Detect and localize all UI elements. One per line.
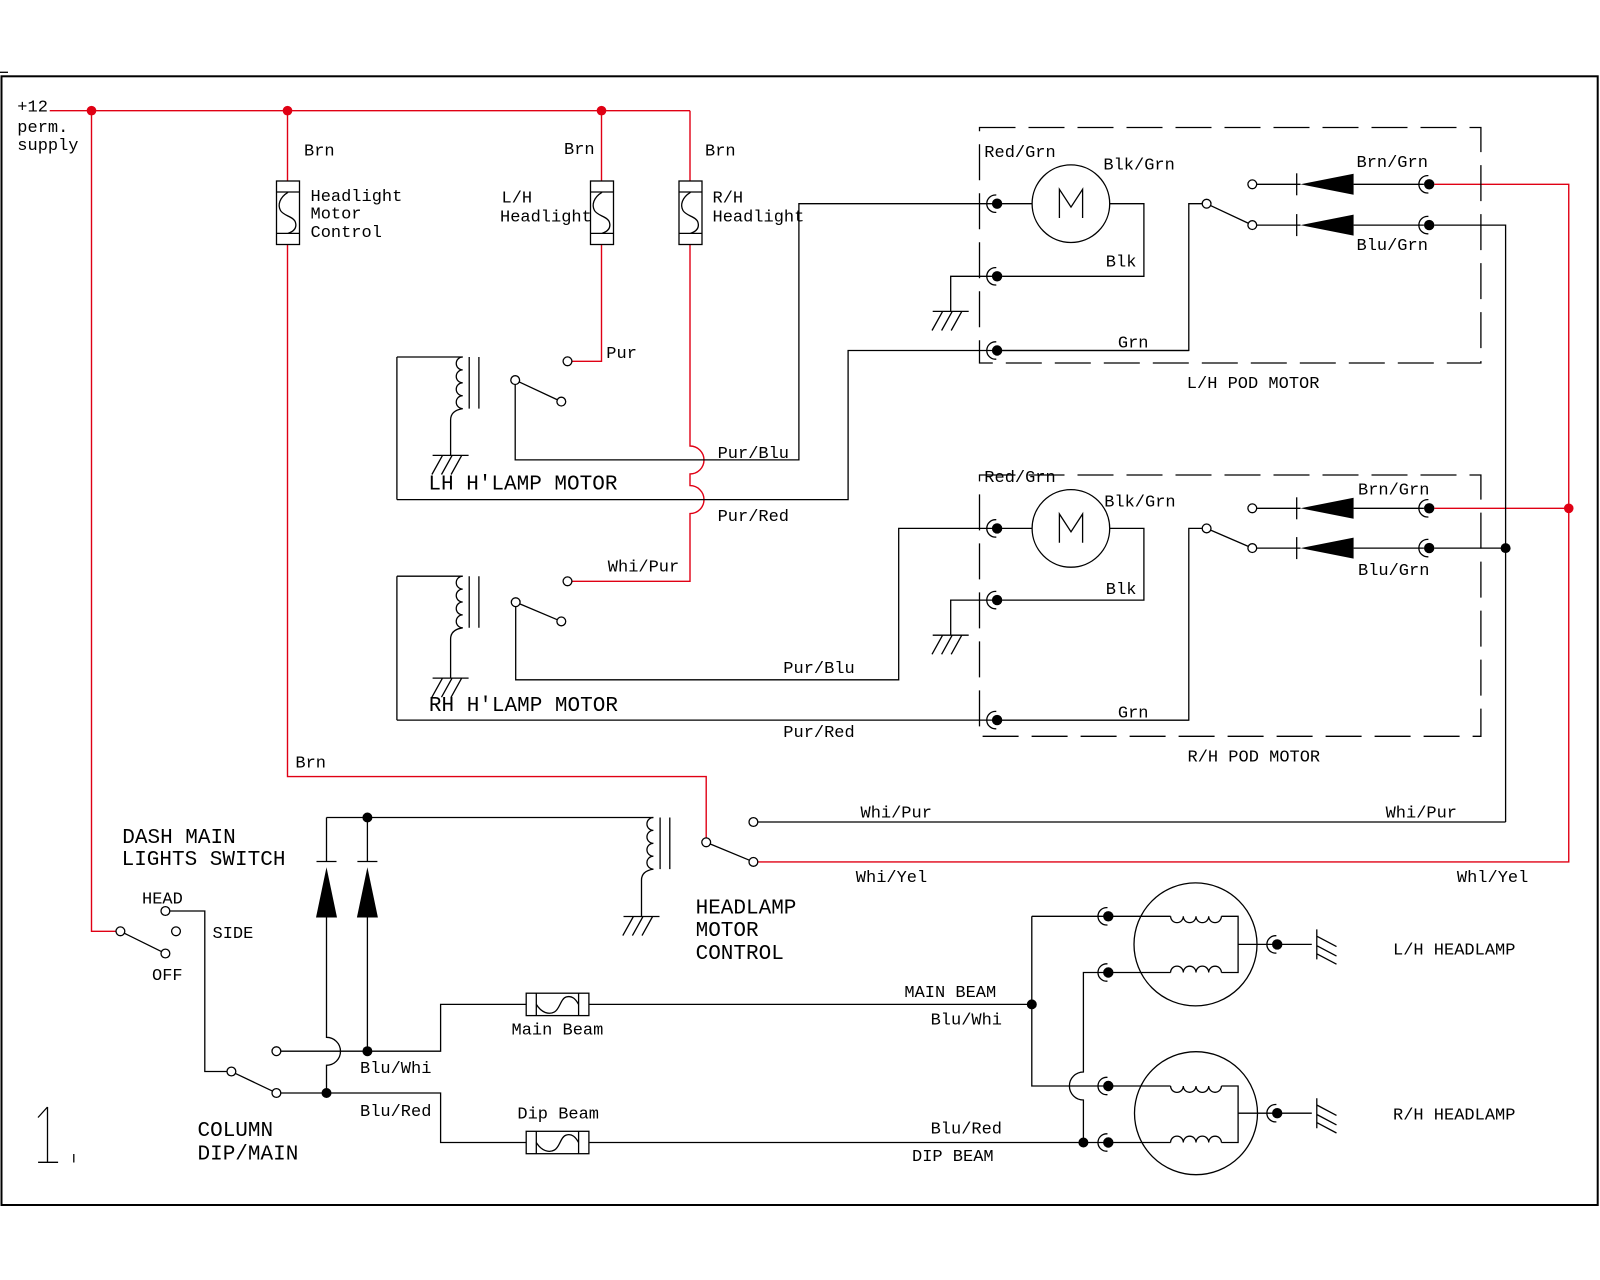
svg-text:Whi/Yel: Whi/Yel <box>856 869 927 888</box>
wire Pur/Blu LH relay to L/H pod Red/Grn terminal <box>515 204 1032 460</box>
wire RH relay coil left drop <box>396 576 398 720</box>
switch pod lower contact R/H pod <box>1248 544 1257 553</box>
switch dash contact SIDE <box>172 927 181 936</box>
wire main beam junction to L/H headlamp <box>1032 915 1171 917</box>
svg-text:DIP/MAIN: DIP/MAIN <box>198 1144 299 1167</box>
svg-text:Pur/Blu: Pur/Blu <box>783 660 854 679</box>
svg-text:Brn/Grn: Brn/Grn <box>1357 154 1428 173</box>
junction red +12 at F1 <box>283 106 293 116</box>
svg-text:Brn: Brn <box>304 143 335 162</box>
svg-text:Blk: Blk <box>1106 254 1137 273</box>
wire HEAD contact to column dip/main pivot <box>170 911 227 1072</box>
junction Blu/Whi at diode D2 <box>362 1046 372 1056</box>
wire Brn/Grn red bus from L/H pod down Whi/Yel <box>758 184 1569 862</box>
switch HMC lower contact Whi/Yel <box>749 858 758 867</box>
motor M circle L/H pod <box>1032 165 1110 243</box>
terminal Blk R/H pod <box>987 591 997 608</box>
svg-text:R/H POD MOTOR: R/H POD MOTOR <box>1188 749 1321 768</box>
diode Brn/Grn R/H pod <box>1301 498 1354 519</box>
svg-text:Blk/Grn: Blk/Grn <box>1103 157 1174 176</box>
switch RH relay pivot <box>511 598 520 607</box>
wire HMC coil bottom to ground <box>642 869 654 916</box>
svg-text:OFF: OFF <box>152 967 183 986</box>
terminal Red/Grn L/H pod <box>987 195 997 212</box>
fuse Main Beam <box>526 993 589 1015</box>
wire diode to Brn/Grn terminal R/H pod <box>1354 507 1424 509</box>
wire diode to Blu/Grn terminal L/H pod <box>1354 224 1424 226</box>
switch pod pivot L/H pod <box>1202 199 1211 208</box>
relay LH coil core <box>469 357 479 409</box>
wire lower contact to diode L/H pod <box>1257 224 1301 226</box>
switch column contact main <box>272 1047 281 1056</box>
wire diode to Brn/Grn terminal L/H pod <box>1354 183 1424 185</box>
wire Whi/Pur from F3 to RH relay upper contact with hops <box>572 245 704 582</box>
svg-text:CONTROL: CONTROL <box>696 943 784 966</box>
svg-text:Pur/Red: Pur/Red <box>718 508 789 527</box>
svg-text:Pur/Blu: Pur/Blu <box>718 445 789 464</box>
switch LH relay lever <box>519 382 557 400</box>
wire Blu/Grn link L/H pod to R/H pod to Whi/Pur <box>1434 225 1505 822</box>
wire main beam junction down to R/H headlamp <box>1032 916 1171 1086</box>
diode D2 cathode bar <box>357 861 377 863</box>
junction red +12 at switch drop <box>87 106 97 116</box>
wire filament join right L/H headlamp <box>1221 916 1238 972</box>
svg-text:Blu/Red: Blu/Red <box>931 1121 1002 1140</box>
headlamp circle R/H headlamp <box>1135 1052 1258 1175</box>
svg-text:Brn: Brn <box>705 143 736 162</box>
wire Main Beam fuse to junction <box>589 1003 1032 1005</box>
wire Pur/Red LH relay to L/H pod Grn terminal <box>397 351 1189 500</box>
wire +12 perm supply bus Brn <box>50 110 690 112</box>
wire diode D1 top <box>326 818 328 862</box>
svg-text:+12: +12 <box>17 99 48 118</box>
ground HMC relay <box>623 917 660 936</box>
switch pod pivot R/H pod <box>1202 524 1211 533</box>
wire RH relay coil bottom to ground <box>451 628 463 678</box>
fuse Headlight Motor Control <box>277 181 300 245</box>
wire lamp common tap L/H headlamp <box>1238 943 1312 945</box>
junction red +12 at F2 <box>597 106 607 116</box>
svg-text:Brn: Brn <box>295 755 326 774</box>
wire RH relay coil top <box>397 575 463 577</box>
switch LH relay lower contact <box>557 397 566 406</box>
svg-text:Main Beam: Main Beam <box>512 1022 604 1041</box>
switch dash contact OFF <box>161 949 170 958</box>
wire filament join right R/H headlamp <box>1221 1086 1238 1143</box>
fuse Dip Beam <box>526 1131 589 1153</box>
wire dip beam riser to L/H headlamp with hop <box>1069 973 1170 1143</box>
svg-text:Whi/Pur: Whi/Pur <box>608 559 679 578</box>
switch RH relay lever <box>520 604 557 620</box>
terminal Red/Grn R/H pod <box>987 520 997 537</box>
sheet number 1 <box>38 1107 58 1162</box>
wire upper contact to diode L/H pod <box>1257 183 1301 185</box>
pod box R/H pod <box>980 475 1481 736</box>
wire LH relay coil top <box>397 356 463 358</box>
junction dip beam <box>1078 1138 1088 1148</box>
switch LH relay upper contact Pur <box>563 357 572 366</box>
switch LH relay pivot <box>511 376 520 385</box>
pod box L/H pod <box>980 128 1481 364</box>
svg-text:L/H: L/H <box>502 190 533 209</box>
relay LH H'LAMP MOTOR coil <box>456 357 462 409</box>
svg-text:RH H'LAMP MOTOR: RH H'LAMP MOTOR <box>429 695 618 718</box>
switch HMC upper contact Whi/Pur <box>749 818 758 827</box>
switch column lever to dip <box>235 1073 272 1091</box>
wire Blu/Grn stub R/H pod <box>1434 547 1505 549</box>
svg-text:Red/Grn: Red/Grn <box>984 144 1055 163</box>
svg-text:Pur/Red: Pur/Red <box>783 724 854 743</box>
svg-text:Whl/Yel: Whl/Yel <box>1457 869 1528 888</box>
svg-text:Red/Grn: Red/Grn <box>984 469 1055 488</box>
svg-text:Control: Control <box>311 224 382 243</box>
filament dip beam L/H headlamp <box>1171 966 1222 972</box>
wire red drop to dash main lights switch <box>92 111 116 932</box>
terminal Grn R/H pod <box>987 711 997 728</box>
svg-text:LIGHTS SWITCH: LIGHTS SWITCH <box>122 849 286 872</box>
diode D1 cathode bar <box>317 861 337 863</box>
wire diode D2 bottom <box>366 918 368 1052</box>
wire motor loop Blk/Grn R/H pod <box>1002 528 1144 600</box>
wire Pur from F2 to LH relay upper contact <box>572 245 602 362</box>
motor M circle R/H pod <box>1032 490 1110 568</box>
svg-text:R/H HEADLAMP: R/H HEADLAMP <box>1393 1107 1515 1126</box>
junction diode link <box>362 813 372 823</box>
terminal lamp common L/H headlamp <box>1267 936 1277 953</box>
diode Brn/Grn cathode bar R/H pod <box>1296 497 1298 519</box>
wire Blk terminal to ground R/H pod <box>951 600 997 635</box>
svg-text:COLUMN: COLUMN <box>198 1120 274 1143</box>
switch dash contact HEAD <box>161 907 170 916</box>
relay headlamp motor control coil <box>647 818 653 870</box>
wire Brn feed to fuse F1 <box>287 111 289 181</box>
terminal Brn/Grn L/H pod <box>1419 176 1429 193</box>
fuse L/H Headlight <box>591 181 614 245</box>
svg-text:Headlight: Headlight <box>713 209 805 228</box>
svg-text:LH H'LAMP MOTOR: LH H'LAMP MOTOR <box>428 474 617 497</box>
diode Blu/Grn cathode bar R/H pod <box>1296 537 1298 559</box>
svg-text:Headlight: Headlight <box>311 188 403 207</box>
ground headlamp L/H headlamp <box>1317 929 1337 964</box>
svg-text:Whi/Pur: Whi/Pur <box>1386 804 1457 823</box>
relay RH H'LAMP MOTOR coil <box>456 576 462 628</box>
terminal Brn/Grn R/H pod <box>1419 500 1429 517</box>
wire diode D2 top <box>366 818 368 862</box>
diode Blu/Grn L/H pod <box>1301 215 1354 236</box>
fuse R/H Headlight <box>679 181 702 245</box>
switch pod lower contact L/H pod <box>1248 221 1257 230</box>
switch dash main lights pivot <box>116 927 125 936</box>
wire Blk terminal to ground L/H pod <box>951 276 997 311</box>
terminal lamp left dip L/H headlamp <box>1098 964 1108 981</box>
switch HMC lever <box>710 844 749 860</box>
switch pod upper contact R/H pod <box>1248 504 1257 513</box>
terminal Blu/Grn L/H pod <box>1419 216 1429 233</box>
wire Dip Beam fuse to R/H headlamp dip filament <box>589 1142 1171 1144</box>
terminal lamp left main R/H headlamp <box>1098 1077 1108 1094</box>
terminal lamp left dip R/H headlamp <box>1098 1134 1108 1151</box>
diode Blu/Grn cathode bar L/H pod <box>1296 214 1298 236</box>
border frame stub top-left <box>0 71 8 73</box>
wire lamp common tap R/H headlamp <box>1238 1112 1312 1114</box>
sheet number tick <box>73 1154 75 1163</box>
svg-text:Blu/Whi: Blu/Whi <box>931 1012 1002 1031</box>
motor M letter R/H pod <box>1059 514 1082 543</box>
terminal lamp left main L/H headlamp <box>1098 908 1108 925</box>
svg-text:Blu/Red: Blu/Red <box>360 1103 431 1122</box>
wire Whi/Pur to pods Blu/Grn link <box>758 821 1506 823</box>
svg-text:MOTOR: MOTOR <box>696 920 759 943</box>
wire diode link to HMC relay coil <box>327 817 654 819</box>
svg-text:SIDE: SIDE <box>213 925 254 944</box>
switch RH relay lower contact <box>557 617 566 626</box>
wire Brn feed to fuse F2 <box>601 111 603 181</box>
wire diode D1 bottom with hop over Blu/Whi <box>327 918 341 1094</box>
switch pod lever L/H pod <box>1211 206 1249 224</box>
svg-text:Brn/Grn: Brn/Grn <box>1358 481 1429 500</box>
diode D2 <box>357 867 378 917</box>
svg-text:perm.: perm. <box>17 119 68 138</box>
wire motor loop Blk/Grn L/H pod <box>1002 204 1144 277</box>
svg-text:DIP BEAM: DIP BEAM <box>912 1148 994 1167</box>
junction red Brn/Grn at R/H pod <box>1564 504 1574 514</box>
svg-text:Blu/Grn: Blu/Grn <box>1357 237 1428 256</box>
junction Blu/Red at diode D1 <box>322 1088 332 1098</box>
wire upper contact to diode R/H pod <box>1257 507 1301 509</box>
junction Blu/Grn at R/H pod <box>1501 543 1511 553</box>
svg-text:HEADLAMP: HEADLAMP <box>696 897 797 920</box>
filament main beam L/H headlamp <box>1171 916 1222 922</box>
svg-text:Blk/Grn: Blk/Grn <box>1104 493 1175 512</box>
svg-text:Pur: Pur <box>606 345 637 364</box>
svg-text:Grn: Grn <box>1118 335 1149 354</box>
wire Brn feed to fuse F3 <box>689 111 691 181</box>
junction main beam <box>1027 999 1037 1009</box>
wire diode to Blu/Grn terminal R/H pod <box>1354 547 1424 549</box>
switch HMC pivot <box>702 838 711 847</box>
ground headlamp R/H headlamp <box>1317 1098 1337 1133</box>
headlamp circle L/H headlamp <box>1134 883 1257 1006</box>
svg-text:supply: supply <box>17 137 78 156</box>
ground pod motor L/H pod <box>932 311 969 330</box>
relay RH coil core <box>469 576 479 628</box>
wire LH relay coil left drop <box>396 357 398 500</box>
switch pod lever R/H pod <box>1211 530 1249 546</box>
wire Brn from F1 down to headlamp motor control relay pivot <box>288 245 707 838</box>
wire LH relay coil bottom to ground <box>451 409 463 456</box>
svg-text:L/H POD MOTOR: L/H POD MOTOR <box>1187 375 1320 394</box>
svg-text:DASH MAIN: DASH MAIN <box>122 827 235 850</box>
diode Brn/Grn cathode bar L/H pod <box>1296 173 1298 195</box>
wire Brn/Grn red stub R/H pod <box>1434 507 1568 509</box>
motor M letter L/H pod <box>1059 189 1082 218</box>
ground LH relay <box>432 455 469 474</box>
switch pod upper contact L/H pod <box>1248 180 1257 189</box>
svg-text:Motor: Motor <box>311 205 362 224</box>
filament dip beam R/H headlamp <box>1171 1136 1222 1142</box>
diode Brn/Grn L/H pod <box>1301 174 1354 195</box>
svg-text:Grn: Grn <box>1118 704 1149 723</box>
svg-text:HEAD: HEAD <box>142 891 183 910</box>
wire lower contact to diode R/H pod <box>1257 547 1301 549</box>
switch RH relay upper contact Whi/Pur <box>563 577 572 586</box>
svg-text:L/H HEADLAMP: L/H HEADLAMP <box>1393 942 1515 961</box>
svg-text:MAIN BEAM: MAIN BEAM <box>904 984 996 1003</box>
svg-text:Dip Beam: Dip Beam <box>517 1106 599 1125</box>
filament main beam R/H headlamp <box>1171 1086 1222 1092</box>
terminal lamp common R/H headlamp <box>1267 1105 1277 1122</box>
terminal Grn L/H pod <box>987 342 997 359</box>
svg-text:Whi/Pur: Whi/Pur <box>861 804 932 823</box>
switch column dip/main pivot <box>227 1067 236 1076</box>
wire Pur/Blu RH relay to R/H pod Red/Grn terminal <box>516 528 1032 679</box>
svg-text:Brn: Brn <box>564 141 595 160</box>
wire Blu/Whi main contact to Main Beam fuse <box>281 1004 526 1051</box>
svg-text:Blk: Blk <box>1106 581 1137 600</box>
terminal Blu/Grn R/H pod <box>1419 539 1429 556</box>
relay HMC coil core <box>660 818 670 870</box>
wire Grn terminal to switch pivot L/H pod <box>997 204 1202 351</box>
wire Grn terminal to switch pivot R/H pod <box>997 528 1202 720</box>
ground pod motor R/H pod <box>932 635 969 654</box>
svg-text:Headlight: Headlight <box>500 209 592 228</box>
diode Blu/Grn R/H pod <box>1301 538 1354 559</box>
wire Blu/Red dip contact to Dip Beam fuse <box>281 1093 526 1143</box>
wire Pur/Red RH relay to R/H pod Grn terminal <box>397 719 1189 721</box>
svg-text:R/H: R/H <box>713 190 744 209</box>
svg-text:Blu/Whi: Blu/Whi <box>360 1060 431 1079</box>
svg-text:Blu/Grn: Blu/Grn <box>1358 562 1429 581</box>
switch column contact dip <box>272 1089 281 1098</box>
switch dash lever to OFF <box>124 933 161 951</box>
diode D1 <box>316 867 337 917</box>
terminal Blk L/H pod <box>987 268 997 285</box>
ground RH relay <box>432 678 469 697</box>
